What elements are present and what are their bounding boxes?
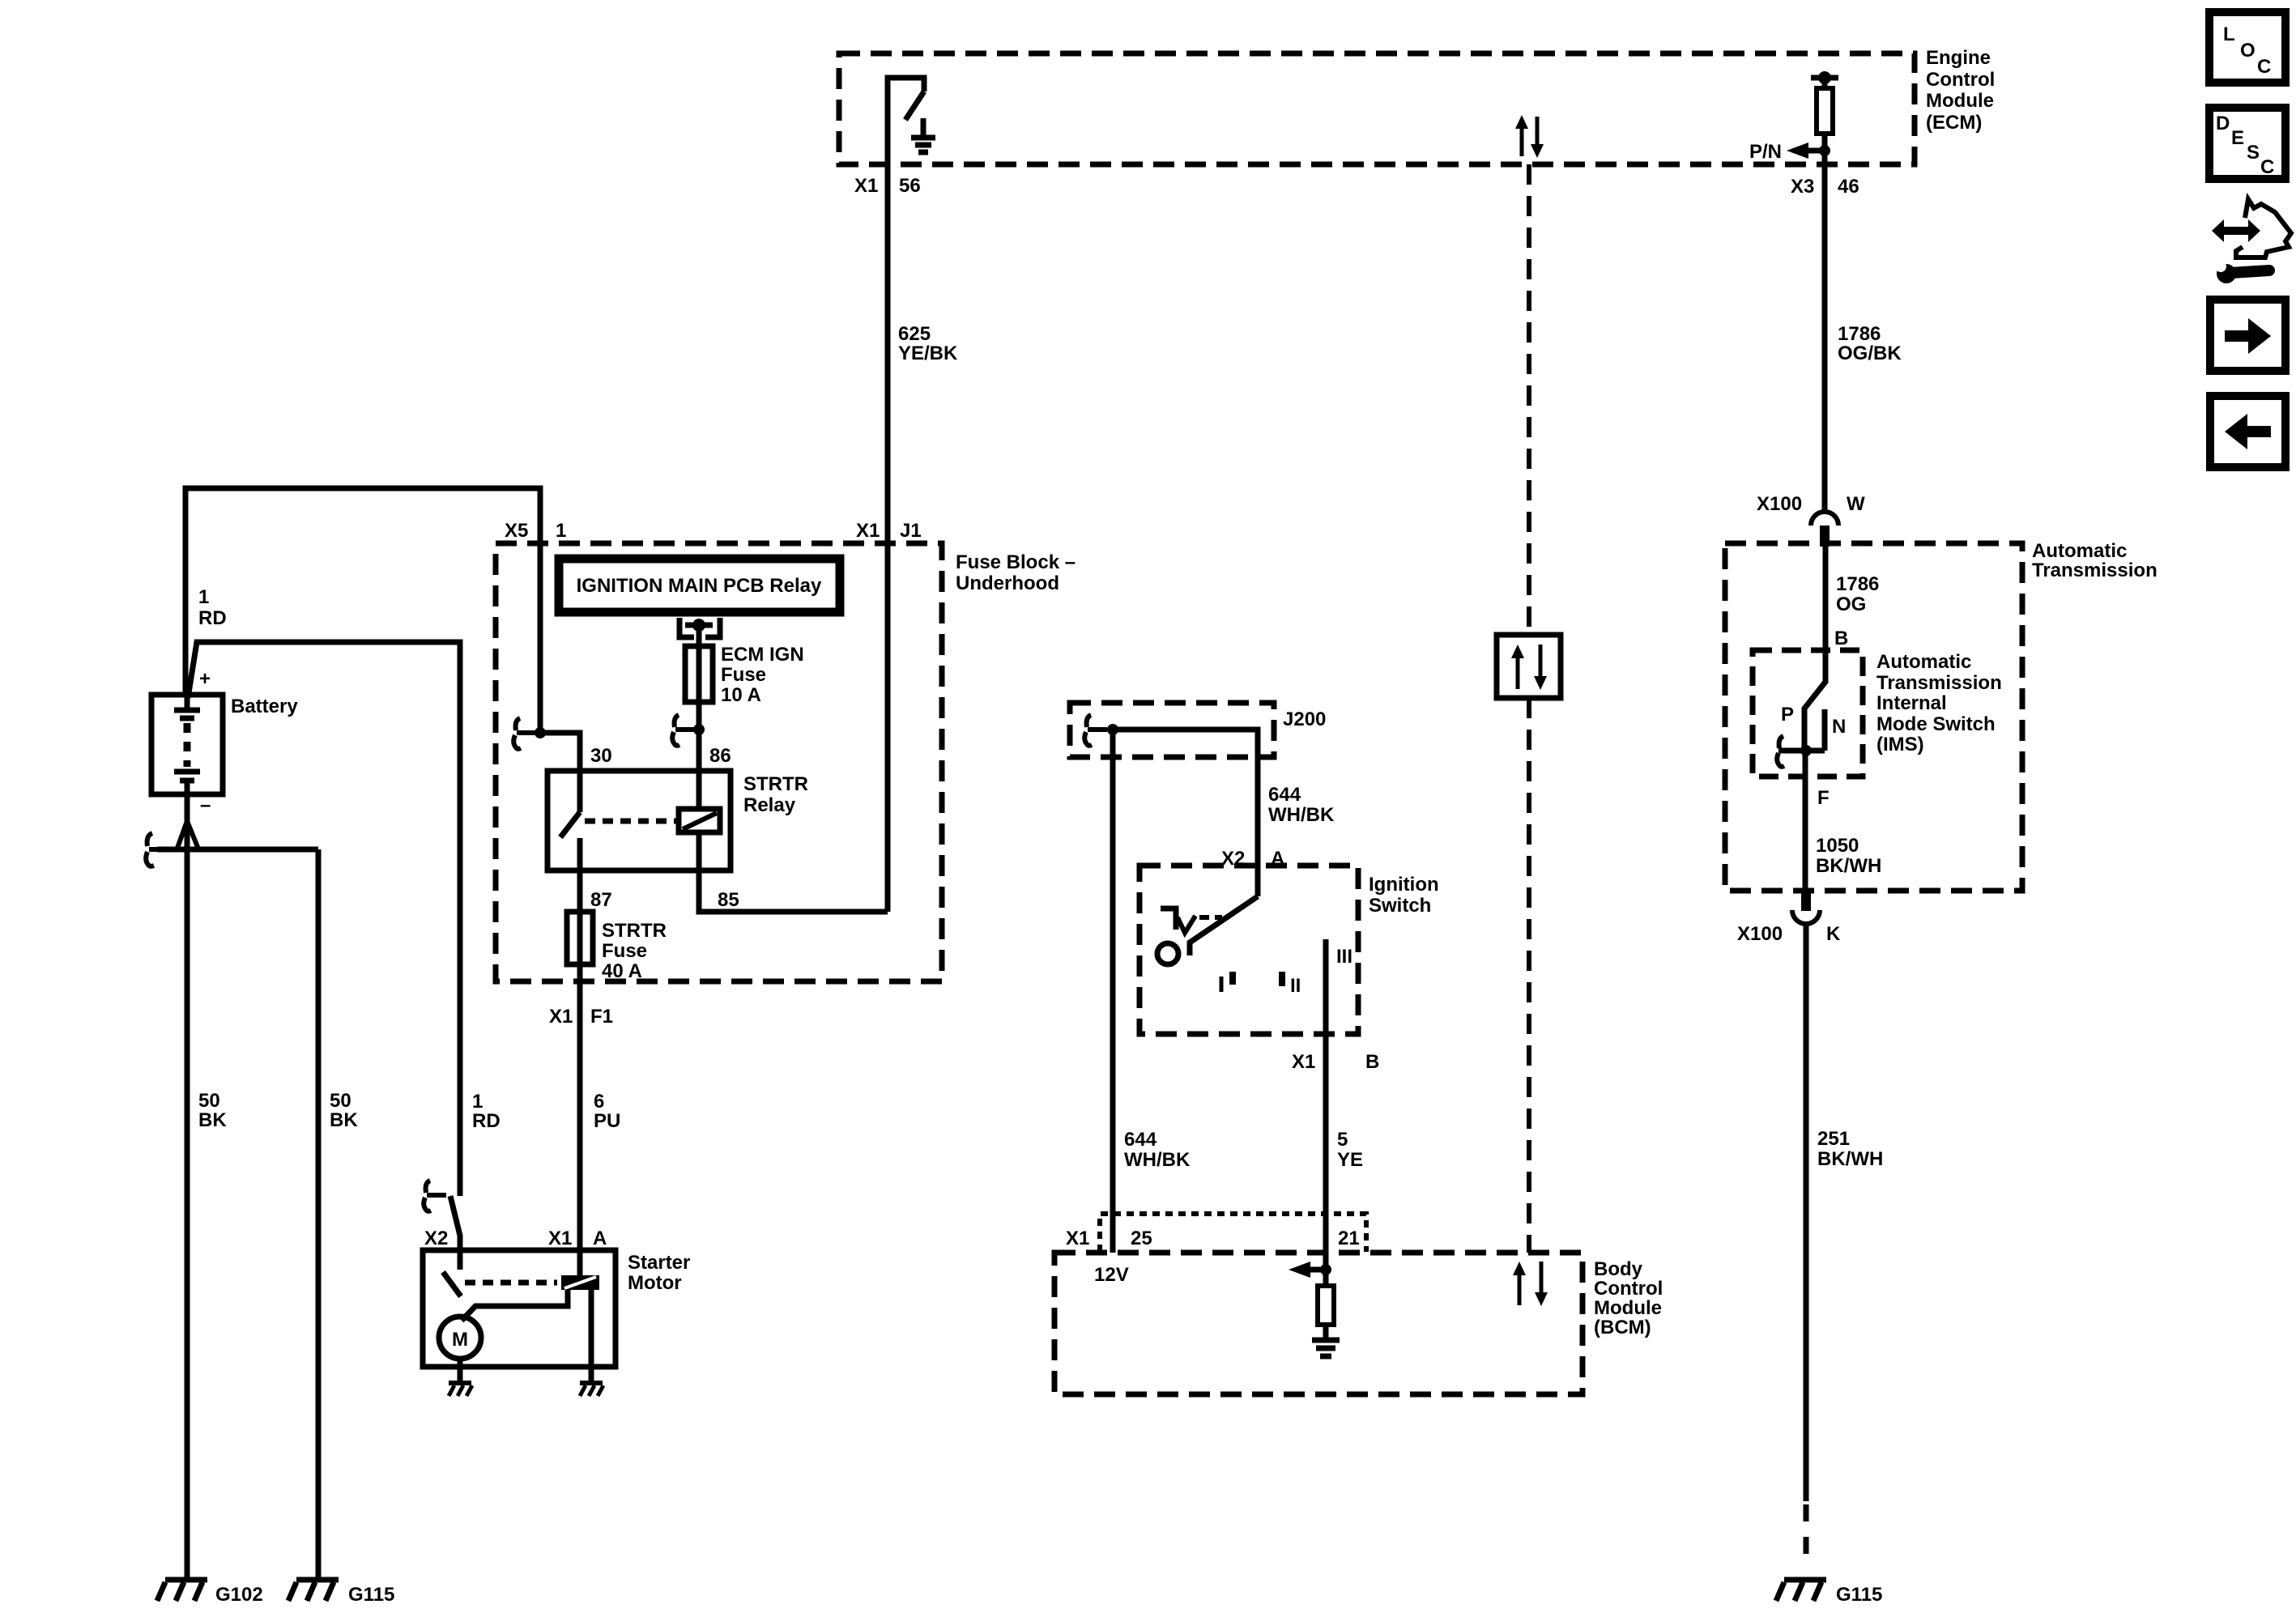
node X1 F1 pin label (549, 1006, 613, 1028)
svg-text:Starter: Starter (628, 1252, 690, 1274)
svg-text:Ignition: Ignition (1369, 874, 1439, 896)
node clip at starter X2 (424, 1181, 446, 1211)
svg-text:1: 1 (472, 1091, 483, 1113)
svg-text:B: B (1365, 1051, 1379, 1073)
wire 625 YE/BK label (898, 323, 958, 364)
svg-text:1: 1 (198, 586, 209, 608)
wire dashed ground lead (1804, 1504, 1809, 1564)
node X1 56 pin label (854, 175, 921, 197)
svg-text:Module: Module (1926, 90, 1994, 112)
node LOC legend box (2209, 12, 2285, 83)
node serial data arrows in BCM (1513, 1262, 1548, 1306)
node P/N signal arrow (1749, 141, 1830, 163)
svg-text:P: P (1781, 704, 1794, 726)
node J200 dashed splice box (1070, 703, 1274, 757)
node DESC legend box (2209, 108, 2285, 179)
wire 1050 BK/WH label (1816, 835, 1881, 877)
svg-text:Transmission: Transmission (1876, 672, 2002, 694)
ECM module name label (1926, 47, 1995, 134)
svg-text:46: 46 (1838, 176, 1859, 198)
relay STRTR name label (743, 773, 808, 816)
svg-text:X100: X100 (1737, 923, 1783, 945)
svg-text:21: 21 (1338, 1228, 1360, 1249)
node splice junction X5/30 (535, 727, 580, 812)
svg-text:STRTR: STRTR (743, 773, 808, 795)
svg-text:Transmission: Transmission (2032, 560, 2158, 581)
svg-text:+: + (199, 668, 211, 690)
svg-text:25: 25 (1131, 1228, 1152, 1249)
wire ignition III contact to X1 B (1323, 939, 1329, 1253)
svg-text:Fuse: Fuse (602, 940, 647, 962)
svg-text:Fuse Block –: Fuse Block – (956, 551, 1076, 573)
svg-text:6: 6 (594, 1091, 604, 1113)
svg-text:Relay: Relay (743, 794, 796, 816)
svg-text:Control: Control (1594, 1278, 1663, 1300)
svg-text:12V: 12V (1094, 1264, 1129, 1286)
wire battery positive to fuse block X5 (185, 488, 540, 733)
svg-text:J1: J1 (900, 520, 922, 542)
svg-text:YE/BK: YE/BK (898, 343, 958, 364)
svg-text:IGNITION MAIN PCB Relay: IGNITION MAIN PCB Relay (577, 575, 822, 597)
transmission name label (2032, 540, 2158, 581)
switch ignition rotor arm (1190, 896, 1258, 955)
wire STRTR relay mechanical link (585, 819, 679, 824)
wire 1 RD label (starter) (472, 1091, 501, 1132)
starter motor box (423, 1250, 616, 1367)
svg-text:III: III (1336, 946, 1352, 968)
svg-text:OG/BK: OG/BK (1838, 343, 1902, 364)
resistor BCM pull-down (1318, 1286, 1334, 1325)
svg-text:X3: X3 (1791, 176, 1814, 198)
wire 1786 OG label (1836, 573, 1879, 615)
svg-text:W: W (1847, 493, 1865, 515)
wire ground strap to G115 (316, 849, 322, 1580)
node X1 25 21 pin labels (1066, 1228, 1360, 1249)
svg-text:40 A: 40 A (602, 960, 642, 982)
svg-text:–: – (200, 794, 211, 816)
node clip at IMS junction (1777, 736, 1800, 767)
svg-text:Mode Switch: Mode Switch (1876, 713, 1996, 735)
wire 251 BK/WH to ground (1804, 924, 1809, 1501)
wire resistor to pin 46 (1822, 134, 1828, 511)
IMS dashed box (1753, 650, 1863, 777)
svg-text:ECM IGN: ECM IGN (721, 644, 804, 666)
coil STRTR relay (679, 809, 720, 832)
svg-text:10 A: 10 A (721, 684, 761, 706)
node BCM signal arrow (1289, 1262, 1331, 1278)
svg-text:D: D (2216, 113, 2230, 134)
wire ECM pin 56 internal (888, 78, 924, 543)
svg-text:K: K (1826, 923, 1841, 945)
svg-text:BK: BK (198, 1109, 227, 1131)
svg-text:625: 625 (898, 323, 931, 345)
ground ECM internal (911, 118, 935, 152)
svg-text:E: E (2231, 127, 2244, 149)
node X3 46 pin label (1791, 176, 1859, 198)
svg-text:X1: X1 (1292, 1051, 1315, 1073)
fuse block name label (956, 551, 1076, 594)
node splice junction IMS (1778, 745, 1825, 756)
node clip at J200 (1084, 715, 1107, 746)
ignition switch name label (1369, 874, 1439, 917)
svg-text:87: 87 (590, 889, 612, 911)
ECM dashed module box (839, 53, 1915, 164)
svg-text:(IMS): (IMS) (1876, 734, 1924, 755)
svg-text:X2: X2 (424, 1228, 448, 1249)
svg-text:Fuse: Fuse (721, 664, 766, 686)
wire 5 YE label (1337, 1129, 1363, 1171)
svg-text:F1: F1 (590, 1006, 613, 1028)
fuse ECM IGN 10A (685, 644, 804, 706)
ground G102 (157, 1580, 263, 1606)
node ignition key symbol (1161, 908, 1222, 933)
node battery negative splice (157, 821, 318, 851)
wire 6 PU label (594, 1091, 620, 1132)
node back-reference arrow box (2210, 396, 2285, 467)
svg-text:RD: RD (198, 607, 227, 629)
wire solenoid coil ground (589, 1290, 594, 1383)
ground G115 (right) (1776, 1580, 1882, 1606)
node splice junction 86 (693, 724, 705, 735)
node BCM X1 connector dotted row (1100, 1214, 1366, 1252)
coil starter solenoid (561, 1275, 599, 1290)
svg-text:X1: X1 (1066, 1228, 1089, 1249)
starter motor name label (628, 1252, 690, 1294)
svg-text:644: 644 (1268, 784, 1301, 806)
svg-text:Module: Module (1594, 1297, 1662, 1319)
svg-text:L: L (2223, 23, 2235, 45)
wire BCM pin 21 internal (1323, 1253, 1329, 1286)
node clip at X5 junction (513, 718, 536, 749)
svg-text:F: F (1817, 787, 1830, 809)
node service vehicle icon (2212, 199, 2291, 283)
fuse block dashed box (496, 543, 942, 981)
node IGNITION MAIN PCB Relay label box (559, 559, 840, 612)
wire IMS to X100 K (1050 BK/WH) (1803, 751, 1808, 890)
svg-text:RD: RD (472, 1110, 501, 1132)
ground G115 (left) (288, 1580, 394, 1606)
svg-text:WH/BK: WH/BK (1124, 1149, 1191, 1171)
svg-text:BK: BK (330, 1109, 358, 1131)
svg-text:M: M (452, 1329, 468, 1351)
svg-text:Motor: Motor (628, 1272, 682, 1294)
svg-text:J200: J200 (1283, 709, 1326, 730)
svg-text:X5: X5 (505, 520, 528, 542)
wire 644 WH/BK label (upper) (1268, 784, 1335, 826)
motor M armature (439, 1317, 481, 1359)
svg-text:1786: 1786 (1838, 323, 1881, 345)
svg-text:STRTR: STRTR (602, 920, 667, 942)
wire inline connector jog at X2 (450, 1196, 460, 1270)
switch ECM internal ground switch (905, 91, 924, 120)
wire serial data dashed line (1527, 164, 1531, 635)
svg-text:X1: X1 (856, 520, 880, 542)
node X5 1 pin label (505, 520, 566, 542)
svg-text:251: 251 (1817, 1128, 1850, 1150)
wire 1 RD label (battery feed) (198, 586, 227, 629)
ground BCM internal (1312, 1338, 1340, 1343)
svg-text:Engine: Engine (1926, 47, 1991, 69)
svg-text:56: 56 (899, 175, 921, 197)
svg-text:1050: 1050 (1816, 835, 1859, 857)
node clip at 86 junction (672, 715, 695, 746)
svg-text:50: 50 (198, 1090, 220, 1112)
svg-text:5: 5 (1337, 1129, 1348, 1151)
wire 251 BK/WH label (1817, 1128, 1883, 1170)
svg-text:85: 85 (718, 889, 739, 911)
wire starter mechanical link (465, 1280, 557, 1286)
node splice junction J200 (1107, 724, 1258, 896)
svg-text:G115: G115 (348, 1584, 394, 1606)
automatic transmission dashed box (1725, 543, 2022, 891)
svg-text:Battery: Battery (231, 696, 298, 717)
node X1 B pin label (1292, 1051, 1379, 1073)
svg-text:YE: YE (1337, 1149, 1363, 1171)
svg-text:Automatic: Automatic (1876, 651, 1971, 673)
svg-text:30: 30 (590, 745, 612, 767)
switch IMS N contact (1822, 709, 1828, 751)
resistor ECM P/N pull-up (1817, 88, 1833, 134)
svg-text:B: B (1834, 628, 1848, 649)
svg-text:Underhood: Underhood (956, 572, 1059, 594)
battery (151, 668, 298, 816)
ignition switch dashed box (1139, 866, 1358, 1034)
node position I mark (1221, 972, 1233, 992)
svg-text:S: S (2247, 142, 2260, 164)
svg-text:644: 644 (1124, 1129, 1157, 1151)
svg-text:X1: X1 (854, 175, 878, 197)
svg-text:X100: X100 (1757, 493, 1802, 515)
svg-text:(ECM): (ECM) (1926, 112, 1982, 134)
svg-text:Control: Control (1926, 69, 1995, 91)
wire relay 87 through STRTR fuse to starter (577, 838, 583, 1275)
wire battery negative (185, 794, 190, 1580)
node forward-reference arrow box (2210, 300, 2285, 371)
IMS name label (1876, 651, 2002, 755)
svg-text:G115: G115 (1836, 1584, 1882, 1606)
svg-text:Switch: Switch (1369, 895, 1431, 917)
svg-text:A: A (593, 1228, 607, 1249)
wire solenoid to motor (462, 1290, 568, 1321)
wire resistor to ground (1323, 1325, 1329, 1342)
wire 50 BK label (left) (198, 1090, 227, 1131)
svg-text:OG: OG (1836, 594, 1866, 615)
svg-text:II: II (1290, 975, 1301, 997)
BCM module name label (1594, 1258, 1663, 1338)
svg-text:Automatic: Automatic (2032, 540, 2127, 562)
node X100 W inline connector (1757, 493, 1865, 547)
svg-text:Body: Body (1594, 1258, 1643, 1280)
wire fuse holder to coil (86 feed) (696, 628, 702, 809)
node X1 J1 pin label (856, 520, 922, 542)
wire relay 85 to fuse block J1 (699, 832, 888, 912)
svg-text:1: 1 (556, 520, 566, 542)
svg-text:50: 50 (330, 1090, 351, 1112)
switch STRTR relay contact (560, 812, 580, 837)
wire motor case ground (458, 1359, 463, 1383)
svg-text:(BCM): (BCM) (1594, 1317, 1651, 1338)
svg-text:G102: G102 (215, 1584, 263, 1606)
BCM dashed module box (1054, 1253, 1582, 1394)
svg-text:BK/WH: BK/WH (1817, 1148, 1883, 1170)
wire X100 W to IMS (1804, 547, 1825, 751)
node serial data arrows at ECM (1515, 115, 1544, 158)
node ignition rotor circle (1157, 943, 1178, 964)
svg-text:N: N (1832, 716, 1846, 738)
relay STRTR box (547, 771, 731, 870)
wire 50 BK label (right) (330, 1090, 358, 1131)
ground starter motor (left) (449, 1383, 472, 1396)
fuse STRTR 40A (567, 912, 667, 982)
svg-text:PU: PU (594, 1110, 620, 1132)
wire ECM 56 to fuse block J1 (625 YE/BK) (885, 164, 891, 912)
node fuse holder bracket (679, 618, 720, 637)
svg-text:Internal: Internal (1876, 692, 1947, 714)
svg-text:X1: X1 (548, 1228, 572, 1249)
node X1 A pin label (548, 1228, 607, 1249)
switch starter solenoid contact (443, 1272, 461, 1296)
svg-text:P/N: P/N (1749, 141, 1782, 163)
wire J200 to BCM 25 (644 WH/BK) (1110, 730, 1116, 1253)
wire 1786 OG/BK label (1838, 323, 1902, 364)
svg-text:C: C (2257, 56, 2271, 78)
svg-text:C: C (2260, 156, 2274, 178)
wire ECM pin 46 internal (1811, 75, 1838, 81)
svg-text:86: 86 (709, 745, 731, 767)
node data link connector box (1497, 635, 1561, 698)
svg-text:1786: 1786 (1836, 573, 1879, 595)
svg-text:O: O (2240, 40, 2256, 62)
wire 644 WH/BK label (lower) (1124, 1129, 1191, 1171)
svg-text:BK/WH: BK/WH (1816, 855, 1881, 877)
wire battery positive to starter (1 RD) (188, 642, 460, 1196)
node position II mark (1282, 972, 1301, 997)
node X100 K inline connector (1737, 890, 1841, 945)
svg-text:X1: X1 (549, 1006, 573, 1028)
node X2 A pin label (1221, 848, 1284, 870)
ground starter solenoid (right) (580, 1383, 603, 1396)
node clip at battery negative (146, 833, 170, 866)
svg-text:WH/BK: WH/BK (1268, 804, 1335, 826)
